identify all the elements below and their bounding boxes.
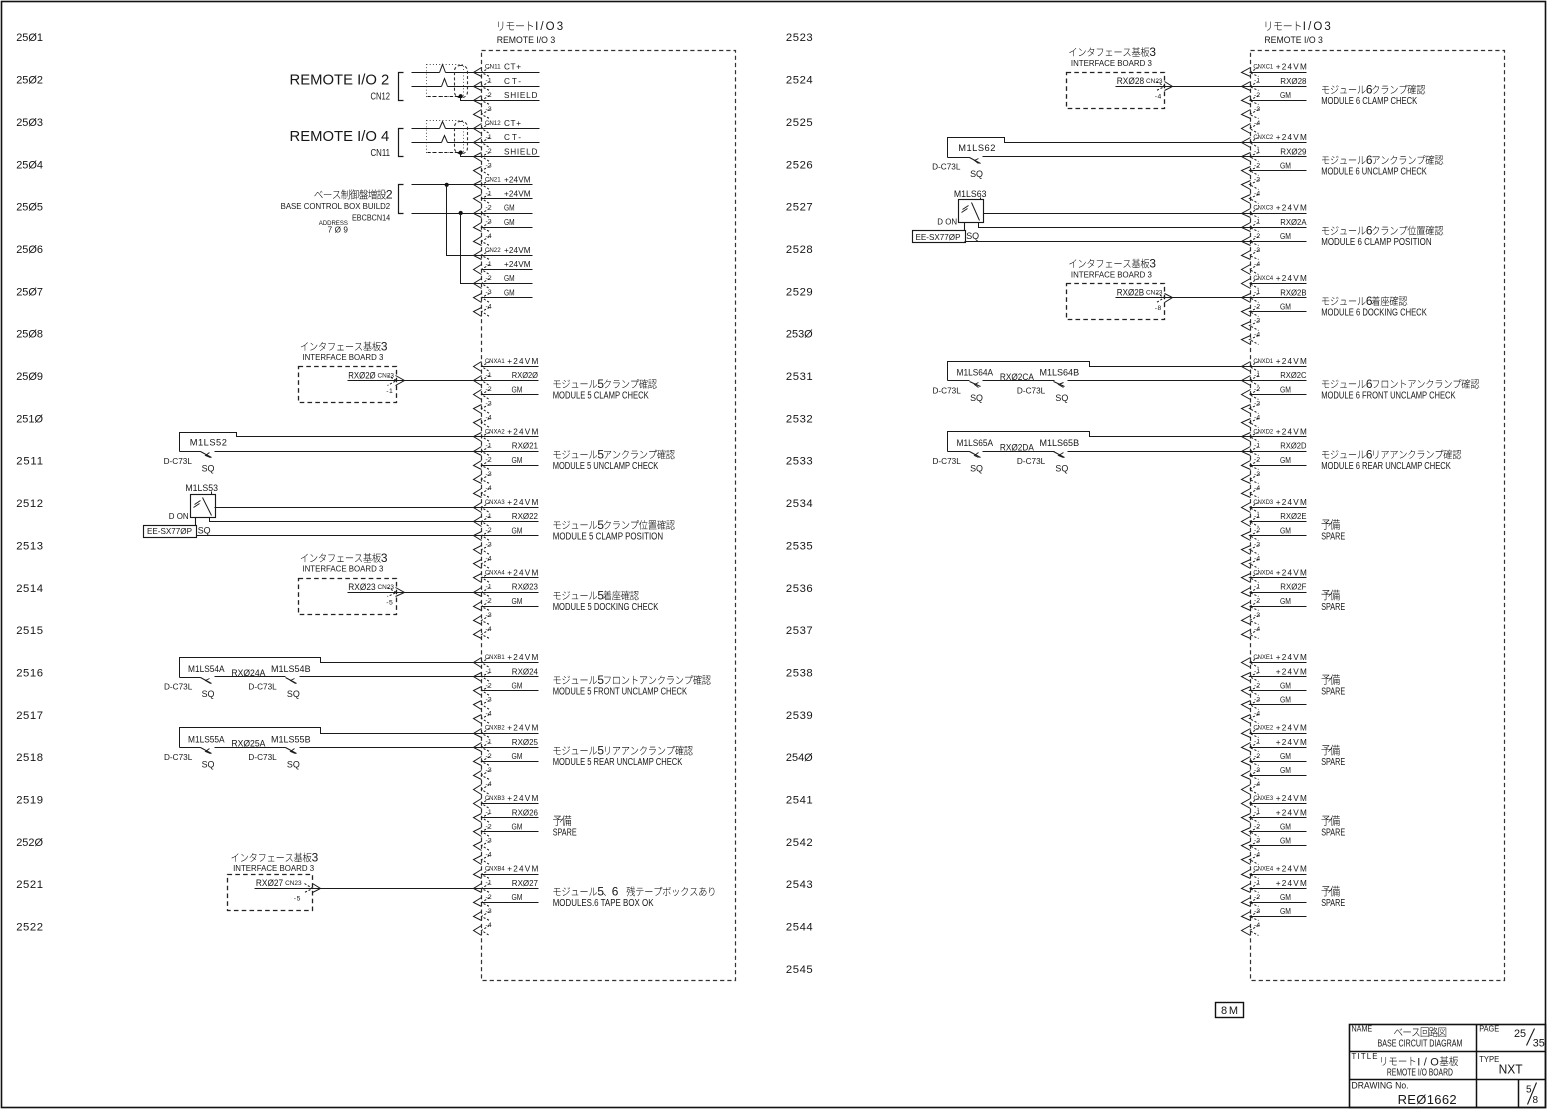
svg-text:M1LS64A: M1LS64A: [957, 368, 994, 378]
connector CNXB4 pin -2 (GM): [474, 893, 539, 907]
title block PAGE 25/35: [1479, 1025, 1545, 1050]
net label SPARE: [1321, 745, 1345, 768]
wire RX027 to board pin: [255, 888, 482, 890]
connector CNXD1 pin -3: [1242, 400, 1261, 413]
svg-text:D-C73L: D-C73L: [933, 387, 962, 396]
svg-text:5: 5: [597, 518, 604, 532]
interface board 3 (インタフェース基板3) output RX023: [299, 551, 397, 615]
svg-text:25: 25: [1514, 1028, 1526, 1040]
limit switch M1LS62: [932, 138, 1250, 180]
svg-text:2513: 2513: [16, 540, 43, 552]
connector CNXC1 pin -2 (GM): [1242, 91, 1307, 105]
svg-text:BASE CONTROL BOX BUILD2: BASE CONTROL BOX BUILD2: [281, 202, 391, 211]
svg-text:GM: GM: [512, 681, 523, 690]
svg-text:-4: -4: [486, 922, 492, 929]
connector housing (dashed): [455, 66, 468, 98]
svg-text:GM: GM: [1280, 597, 1291, 606]
svg-text:TITLE: TITLE: [1352, 1052, 1378, 1061]
cable bracket: [399, 129, 404, 157]
connector CN23-5 pin: [294, 884, 321, 903]
svg-text:-2: -2: [1254, 233, 1260, 240]
net label MODULE 6 FRONT UNCLAMP CHECK: [1321, 377, 1479, 402]
svg-text:2534: 2534: [786, 498, 813, 510]
svg-text:25Ø6: 25Ø6: [16, 244, 43, 256]
svg-text:-3: -3: [1254, 176, 1260, 183]
svg-text:CT-: CT-: [504, 77, 521, 86]
svg-text:2537: 2537: [786, 625, 813, 637]
svg-text:-3: -3: [486, 612, 492, 619]
cable bracket: [399, 185, 404, 214]
svg-text:M1LS64B: M1LS64B: [1040, 368, 1080, 378]
svg-text:RXØ2C: RXØ2C: [1280, 371, 1306, 380]
net label SPARE: [1321, 886, 1345, 909]
svg-text:GM: GM: [1280, 302, 1291, 311]
svg-text:D ON: D ON: [169, 512, 189, 521]
connector CN22 pin -4: [474, 303, 492, 316]
svg-text:+24VM: +24VM: [1276, 865, 1307, 874]
svg-text:2521: 2521: [16, 879, 43, 891]
svg-text:6: 6: [1366, 294, 1373, 308]
connector CNXA1 pin -1 (RX020): [474, 371, 539, 385]
svg-text:D-C73L: D-C73L: [1017, 387, 1046, 396]
svg-text:RXØ25: RXØ25: [512, 738, 539, 747]
svg-text:2514: 2514: [16, 583, 43, 595]
svg-text:252Ø: 252Ø: [16, 837, 43, 849]
connector CNXB3 pin -4: [474, 852, 492, 865]
svg-text:6: 6: [1366, 377, 1373, 391]
net label MODULE 5 FRONT UNCLAMP CHECK: [553, 673, 711, 698]
svg-text:+24VM: +24VM: [1276, 879, 1307, 888]
limit switch M1LS52: [164, 433, 482, 474]
svg-text:+24VM: +24VM: [1276, 204, 1307, 213]
svg-text:SQ: SQ: [970, 464, 983, 474]
svg-text:MODULE 5 UNCLAMP CHECK: MODULE 5 UNCLAMP CHECK: [553, 461, 659, 472]
svg-text:INTERFACE BOARD 3: INTERFACE BOARD 3: [302, 353, 383, 362]
connector CNXE3 pin -2 (GM): [1242, 822, 1307, 836]
svg-text:-2: -2: [486, 894, 492, 901]
svg-text:-1: -1: [486, 78, 492, 85]
svg-text:+24VM: +24VM: [1276, 808, 1307, 817]
svg-text:SQ: SQ: [202, 464, 215, 474]
svg-text:2538: 2538: [786, 667, 813, 679]
connector CNXA2 pin -3: [474, 471, 492, 484]
svg-text:RXØ2Ø: RXØ2Ø: [348, 371, 375, 381]
wire sensor output: [210, 518, 482, 522]
svg-text:6: 6: [1366, 83, 1373, 97]
svg-text:MODULE 5 CLAMP CHECK: MODULE 5 CLAMP CHECK: [553, 390, 649, 401]
connector CNXE1 pin (+24VM): [1242, 653, 1307, 667]
connector CNXA1 pin -4: [474, 414, 492, 427]
svg-text:REMOTE I/O 3: REMOTE I/O 3: [497, 35, 556, 45]
connector CN21 pin -4: [474, 233, 492, 246]
svg-text:6: 6: [612, 885, 619, 899]
svg-text:-4: -4: [1254, 781, 1260, 788]
title block: [1350, 1025, 1546, 1108]
title block NAME: base circuit diagram: [1352, 1025, 1463, 1050]
svg-text:-2: -2: [1254, 753, 1260, 760]
svg-text:RXØ27: RXØ27: [512, 879, 539, 888]
photoelectric sensor M1LS53 (EE-SX770P): [169, 483, 218, 521]
limit switch M1LS64B: [1017, 368, 1251, 403]
net label MODULE 5 REAR UNCLAMP CHECK: [553, 744, 693, 769]
svg-text:2529: 2529: [786, 286, 813, 298]
svg-text:-5: -5: [294, 895, 301, 902]
connector CN22 pin -3 (GM): [474, 288, 533, 302]
svg-text:SPARE: SPARE: [1321, 828, 1345, 839]
connector CNXA3 pin -1 (RX022): [474, 512, 539, 526]
svg-text:GM: GM: [1280, 91, 1291, 100]
interface board 3 (インタフェース基板3) output RX027: [228, 851, 319, 911]
svg-text:RXØ2D: RXØ2D: [1280, 442, 1306, 451]
svg-text:-3: -3: [1254, 837, 1260, 844]
svg-text:2535: 2535: [786, 540, 813, 552]
svg-text:2517: 2517: [16, 710, 43, 722]
svg-text:+24VM: +24VM: [507, 794, 538, 803]
sheet mark 8M: [1216, 1003, 1244, 1018]
svg-text:8M: 8M: [1221, 1005, 1238, 1017]
connector housing (dashed): [455, 122, 468, 154]
svg-text:+24VM: +24VM: [507, 357, 538, 366]
wire GM from sensor: [197, 535, 482, 537]
svg-text:D-C73L: D-C73L: [933, 457, 962, 466]
net label MODULE 6 CLAMP POSITION: [1321, 224, 1443, 249]
svg-text:-3: -3: [1254, 696, 1260, 703]
svg-text:-4: -4: [486, 485, 492, 492]
svg-text:2528: 2528: [786, 244, 813, 256]
svg-text:6: 6: [1366, 153, 1373, 167]
svg-text:GM: GM: [512, 752, 523, 761]
connector CNXB1 pin -4: [474, 711, 492, 724]
net label MODULE 6 CLAMP CHECK: [1321, 83, 1425, 108]
connector CNXA3 pin -4: [474, 555, 492, 568]
wire shield to pin -2: [461, 153, 482, 157]
svg-text:MODULE 5 REAR UNCLAMP CHECK: MODULE 5 REAR UNCLAMP CHECK: [553, 757, 683, 768]
svg-text:CN21: CN21: [485, 176, 501, 183]
connector CN23-5 pin: [386, 588, 404, 607]
svg-text:-1: -1: [486, 191, 492, 198]
svg-text:CNXC4: CNXC4: [1253, 275, 1273, 282]
net label MODULE 6 DOCKING CHECK: [1321, 294, 1427, 319]
connector CNXB3 pin -3: [474, 837, 492, 850]
svg-text:-4: -4: [1254, 852, 1260, 859]
connector CNXB3 pin -2 (GM): [474, 822, 539, 836]
svg-text:-2: -2: [486, 92, 492, 99]
svg-text:-3: -3: [486, 908, 492, 915]
svg-text:GM: GM: [504, 274, 515, 283]
svg-text:-3: -3: [486, 400, 492, 407]
svg-text:REØ1662: REØ1662: [1398, 1092, 1457, 1107]
limit switch M1LS55A: [164, 728, 482, 770]
svg-text:CN11: CN11: [485, 64, 501, 71]
svg-text:25Ø3: 25Ø3: [16, 117, 43, 129]
connector CNXE2 pin -2 (GM): [1242, 752, 1307, 766]
limit switch M1LS54A: [164, 658, 482, 700]
svg-text:SPARE: SPARE: [1321, 602, 1345, 613]
svg-text:CN23: CN23: [285, 880, 302, 887]
svg-text:-3: -3: [486, 471, 492, 478]
svg-text:INTERFACE BOARD 3: INTERFACE BOARD 3: [1071, 59, 1152, 68]
svg-text:25Ø5: 25Ø5: [16, 202, 43, 214]
connector CNXE3 pin (+24VM): [1242, 794, 1307, 808]
connector CNXE3 pin -4: [1242, 852, 1261, 865]
svg-text:-3: -3: [1254, 247, 1260, 254]
svg-text:CNXB1: CNXB1: [485, 654, 505, 661]
external device BASE CONTROL BOX BUILD2 (ベース制御盤増設2): [281, 188, 393, 235]
net label MODULE 5 UNCLAMP CHECK: [553, 447, 675, 472]
svg-text:D-C73L: D-C73L: [932, 163, 961, 172]
svg-text:-1: -1: [486, 443, 492, 450]
sensor type label EE-SX770P: [913, 223, 980, 243]
svg-text:-3: -3: [486, 767, 492, 774]
net label SPARE: [1321, 519, 1345, 542]
connector CNXB2 pin (+24VM): [474, 724, 539, 738]
svg-text:GM: GM: [504, 288, 515, 297]
connector CNXC1 pin -4: [1242, 120, 1261, 134]
svg-text:-1: -1: [486, 134, 492, 141]
connector CNXA1 pin -3: [474, 400, 492, 413]
connector CNXB2 pin -4: [474, 781, 492, 795]
svg-text:RXØ2CA: RXØ2CA: [1000, 372, 1035, 382]
svg-text:-1: -1: [486, 668, 492, 675]
svg-text:+24VM: +24VM: [507, 569, 538, 578]
svg-text:M1LS65B: M1LS65B: [1040, 438, 1080, 448]
svg-text:GM: GM: [1280, 752, 1291, 761]
svg-text:D-C73L: D-C73L: [248, 753, 277, 762]
svg-text:-4: -4: [486, 781, 492, 788]
connector CN11 pin -3: [474, 106, 492, 119]
svg-text:5: 5: [597, 447, 604, 461]
svg-text:CNXA2: CNXA2: [485, 429, 505, 436]
wire RX023 to board pin: [348, 592, 482, 594]
connector CNXA3 pin -3: [474, 541, 492, 554]
svg-text:2525: 2525: [786, 117, 813, 129]
svg-text:+24VM: +24VM: [1276, 653, 1307, 662]
svg-text:-3: -3: [486, 162, 492, 169]
svg-text:-4: -4: [1254, 555, 1260, 562]
svg-text:REMOTE I/O 4: REMOTE I/O 4: [290, 128, 390, 145]
svg-text:-4: -4: [1254, 261, 1260, 268]
connector CN23-1 pin: [386, 376, 404, 395]
svg-text:SHIELD: SHIELD: [504, 147, 537, 156]
svg-text:-2: -2: [1254, 682, 1260, 689]
svg-text:SQ: SQ: [198, 525, 211, 535]
limit switch M1LS65A: [933, 432, 1251, 474]
svg-text:MODULE 6 CLAMP CHECK: MODULE 6 CLAMP CHECK: [1321, 96, 1417, 107]
svg-text:-3: -3: [1254, 471, 1260, 478]
svg-text:-8: -8: [1155, 305, 1162, 312]
net label MODULE 6 REAR UNCLAMP CHECK: [1321, 447, 1461, 472]
connector CNXA2 pin -4: [474, 485, 492, 498]
svg-text:SHIELD: SHIELD: [504, 91, 537, 100]
svg-text:D-C73L: D-C73L: [248, 683, 277, 692]
svg-text:MODULE 6 REAR UNCLAMP CHECK: MODULE 6 REAR UNCLAMP CHECK: [1321, 461, 1451, 472]
svg-text:GM: GM: [1280, 696, 1291, 705]
svg-text:SQ: SQ: [970, 393, 983, 403]
svg-text:RXØ29: RXØ29: [1280, 147, 1307, 156]
svg-text:-3: -3: [486, 696, 492, 703]
svg-text:CT-: CT-: [504, 133, 521, 142]
svg-text:-4: -4: [486, 303, 492, 310]
svg-text:-2: -2: [486, 753, 492, 760]
svg-text:+24VM: +24VM: [1276, 498, 1307, 507]
svg-text:-4: -4: [486, 852, 492, 859]
svg-text:-1: -1: [486, 880, 492, 887]
svg-text:M1LS52: M1LS52: [190, 438, 227, 448]
connector CNXA4 pin -4: [474, 626, 492, 639]
interface board 3 (インタフェース基板3) output RX020: [299, 339, 397, 402]
cable shield (dotted): [427, 65, 464, 97]
svg-text:-4: -4: [1254, 191, 1260, 198]
connector CN12 pin -1 (CT-): [474, 133, 540, 147]
svg-text:-1: -1: [486, 584, 492, 591]
net label MODULES.6 TAPE BOX OK: [553, 885, 715, 910]
svg-text:5: 5: [597, 588, 604, 602]
svg-text:RXØ23: RXØ23: [348, 582, 375, 592]
connector CNXC3 pin -2 (GM): [1242, 232, 1307, 246]
connector CNXC4 pin -1 (RX02B): [1242, 288, 1308, 302]
svg-text:+24VM: +24VM: [507, 498, 538, 507]
connector CNXD1 pin -2 (GM): [1242, 385, 1307, 399]
svg-text:GM: GM: [512, 456, 523, 465]
connector CNXC4 pin -4: [1242, 332, 1261, 345]
svg-text:GM: GM: [1280, 385, 1291, 394]
svg-text:+24VM: +24VM: [1276, 569, 1307, 578]
line number column 2523-2545: [786, 32, 813, 976]
svg-text:2512: 2512: [16, 498, 43, 510]
svg-text:-2: -2: [486, 386, 492, 393]
svg-text:+24VM: +24VM: [1276, 133, 1307, 142]
svg-text:+24VM: +24VM: [1276, 428, 1307, 437]
wire CT+ twisted pair: [412, 122, 482, 129]
svg-text:-2: -2: [1254, 303, 1260, 310]
svg-text:CN22: CN22: [485, 247, 501, 254]
svg-text:CNXE3: CNXE3: [1253, 795, 1273, 802]
connector CN21 pin -3 (GM): [474, 218, 533, 232]
connector CNXD2 pin -3: [1242, 471, 1261, 484]
svg-text:-3: -3: [1254, 106, 1260, 113]
svg-text:+24VM: +24VM: [1276, 667, 1307, 676]
svg-text:+24VM: +24VM: [1276, 724, 1307, 733]
svg-text:-4: -4: [486, 414, 492, 421]
svg-text:2539: 2539: [786, 710, 813, 722]
connector CNXC2 pin -1 (RX029): [1242, 147, 1307, 161]
connector CNXB3 pin -1 (RX026): [474, 808, 539, 822]
svg-text:GM: GM: [1280, 893, 1291, 902]
connector CNXE2 pin -3 (GM): [1242, 766, 1307, 780]
svg-text:+24VM: +24VM: [504, 176, 531, 185]
connector CNXA2 pin -2 (GM): [474, 456, 539, 470]
svg-text:RXØ23: RXØ23: [512, 583, 539, 592]
connector CN12 pin -2 (SHIELD): [474, 147, 540, 161]
svg-text:CNXC3: CNXC3: [1253, 205, 1273, 212]
remote I/O 3 board title (リモートI/O3): [497, 21, 563, 45]
svg-text:-3: -3: [1254, 400, 1260, 407]
connector CNXD2 pin -2 (GM): [1242, 456, 1307, 470]
svg-text:CNXB4: CNXB4: [485, 866, 505, 873]
svg-text:-3: -3: [486, 106, 492, 113]
limit switch M1LS65B: [1017, 438, 1251, 473]
svg-text:+24VM: +24VM: [1276, 357, 1307, 366]
remote I/O 3 board title (リモートI/O3): [1264, 21, 1330, 45]
limit switch M1LS54B: [248, 664, 481, 699]
svg-text:-1: -1: [1254, 372, 1260, 379]
interface board 3 (インタフェース基板3) output RX028: [1067, 45, 1165, 109]
svg-text:-1: -1: [486, 809, 492, 816]
connector CNXD1 pin -4: [1242, 414, 1261, 427]
svg-text:D-C73L: D-C73L: [1017, 457, 1046, 466]
connector CNXD2 pin -1 (RX02D): [1242, 442, 1307, 456]
svg-text:-4: -4: [486, 555, 492, 562]
connector CN12 pin -3: [474, 162, 492, 175]
svg-text:2522: 2522: [16, 922, 43, 934]
svg-text:CNXE4: CNXE4: [1253, 866, 1273, 873]
svg-text:GM: GM: [512, 526, 523, 535]
svg-text:RXØ21: RXØ21: [512, 442, 539, 451]
connector CNXC3 pin -1 (RX02A): [1242, 218, 1308, 232]
connector CNXE3 pin -1 (+24VM): [1242, 808, 1307, 822]
svg-text:MODULE 6 FRONT UNCLAMP CHECK: MODULE 6 FRONT UNCLAMP CHECK: [1321, 390, 1456, 401]
svg-text:INTERFACE BOARD 3: INTERFACE BOARD 3: [233, 864, 314, 873]
svg-text:GM: GM: [1280, 161, 1291, 170]
svg-text:-1: -1: [1254, 219, 1260, 226]
svg-text:INTERFACE BOARD 3: INTERFACE BOARD 3: [302, 565, 383, 574]
connector CNXE2 pin (+24VM): [1242, 724, 1307, 738]
connector CNXD3 pin -3: [1242, 541, 1261, 554]
svg-text:RXØ2B: RXØ2B: [1280, 288, 1307, 297]
svg-text:5: 5: [597, 673, 604, 687]
svg-text:-3: -3: [486, 837, 492, 844]
svg-text:6: 6: [1366, 224, 1373, 238]
svg-text:-3: -3: [486, 289, 492, 296]
wire +24VM to sensor: [215, 507, 482, 509]
svg-text:-1: -1: [1254, 809, 1260, 816]
net label MODULE 6 UNCLAMP CHECK: [1321, 153, 1443, 178]
svg-text:+24VM: +24VM: [507, 724, 538, 733]
svg-text:-1: -1: [1254, 739, 1260, 746]
connector CN11 pin -1 (CT-): [474, 77, 540, 91]
svg-text:CNXA3: CNXA3: [485, 499, 505, 506]
svg-text:SPARE: SPARE: [553, 828, 577, 839]
svg-text:M1LS54B: M1LS54B: [271, 664, 311, 674]
connector CNXA2 pin -1 (RX021): [474, 442, 539, 456]
svg-text:REMOTE I/O 3: REMOTE I/O 3: [1264, 35, 1323, 45]
svg-text:GM: GM: [1280, 232, 1291, 241]
svg-text:DRAWING No.: DRAWING No.: [1352, 1081, 1409, 1091]
svg-text:-4: -4: [1254, 711, 1260, 718]
svg-text:+24VM: +24VM: [504, 260, 531, 269]
line number column 2501-2522: [16, 32, 43, 933]
svg-text:RXØ22: RXØ22: [512, 512, 539, 521]
svg-text:+24VM: +24VM: [1276, 794, 1307, 803]
svg-text:-2: -2: [486, 148, 492, 155]
svg-text:-2: -2: [1254, 162, 1260, 169]
connector CNXA1 pin (+24VM): [474, 357, 539, 371]
connector CN11 pin -2 (SHIELD): [474, 91, 540, 105]
connector CN11 pin (CT+): [474, 63, 540, 77]
svg-text:NAME: NAME: [1352, 1025, 1373, 1034]
svg-text:RXØ24: RXØ24: [512, 667, 539, 676]
svg-text:RXØ28: RXØ28: [1280, 77, 1307, 86]
svg-text:-4: -4: [1254, 626, 1260, 633]
svg-text:-4: -4: [1254, 120, 1260, 127]
svg-text:2527: 2527: [786, 202, 813, 214]
svg-text:-2: -2: [486, 205, 492, 212]
svg-text:-3: -3: [486, 219, 492, 226]
svg-text:+24VM: +24VM: [1276, 738, 1307, 747]
svg-text:6: 6: [1366, 447, 1373, 461]
connector CNXB4 pin -4: [474, 922, 492, 936]
svg-text:CT+: CT+: [504, 63, 521, 72]
